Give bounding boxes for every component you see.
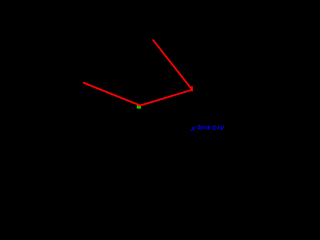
svg-text:X: X — [190, 126, 196, 133]
svg-text:DIV: DIV — [212, 125, 225, 132]
